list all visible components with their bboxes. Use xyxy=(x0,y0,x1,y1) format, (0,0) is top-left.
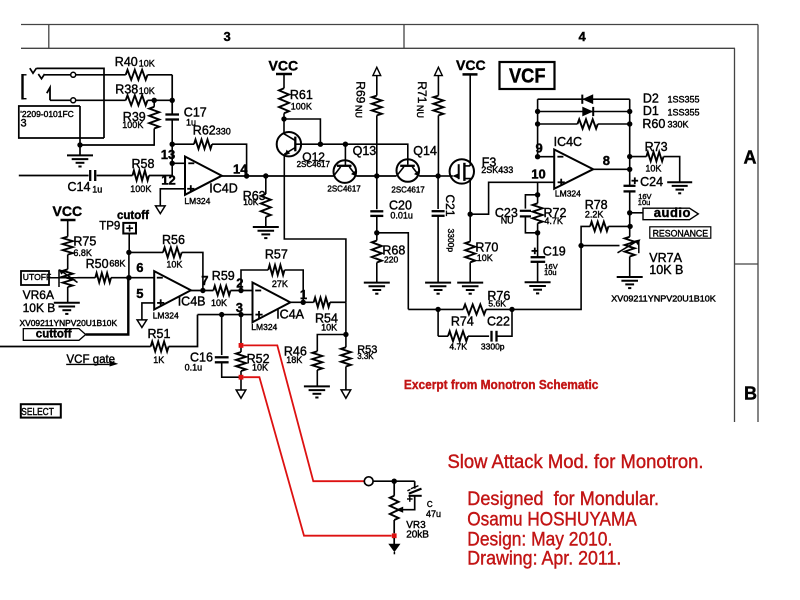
wire R39 to ground rail xyxy=(153,100,155,146)
svg-text:9: 9 xyxy=(536,140,543,155)
sheet border column tick left xyxy=(48,25,50,49)
wire C23 branch bottom xyxy=(525,216,537,232)
IC4A plus sign xyxy=(255,311,262,318)
label IC4A LM324 xyxy=(251,322,277,332)
label jack pin 3 xyxy=(21,117,27,129)
wire switch2 to contact xyxy=(45,74,71,76)
label C16 xyxy=(185,351,213,373)
IC4D plus sign xyxy=(187,185,194,192)
label C 47u xyxy=(426,500,441,519)
wire pin10 column xyxy=(537,182,539,195)
node pin1 junction xyxy=(301,300,306,305)
wire C20 to R68 xyxy=(376,216,378,233)
svg-text:3: 3 xyxy=(21,117,27,129)
sheet border inner top line xyxy=(21,47,735,49)
label R38 xyxy=(115,83,155,97)
wire C17 node to R62 xyxy=(172,143,194,145)
diode D2 xyxy=(582,94,593,104)
ground VR6A xyxy=(54,303,80,314)
node R69 junction xyxy=(374,173,379,178)
svg-text:D1: D1 xyxy=(643,104,659,118)
wire C24 to audio node xyxy=(629,191,631,212)
wire R74 branch bottom left xyxy=(438,335,448,337)
wire R57 left xyxy=(241,270,268,291)
node rail right D1 xyxy=(627,109,632,114)
node C17-R62 junction xyxy=(170,142,175,147)
label IC4C xyxy=(554,135,582,149)
wire VCF gate line xyxy=(0,346,151,348)
node rail R60 junction xyxy=(535,121,540,126)
svg-text:27K: 27K xyxy=(272,279,288,289)
svg-text:R50: R50 xyxy=(86,257,109,271)
wire R58 to IC4D node xyxy=(149,175,172,177)
resistor R61 xyxy=(279,88,289,113)
svg-text:RESONANCE: RESONANCE xyxy=(653,228,709,239)
label R52 xyxy=(247,352,270,373)
svg-text:'2209-0101FC: '2209-0101FC xyxy=(20,110,74,119)
label IC4C LM324 xyxy=(555,189,581,199)
svg-text:4: 4 xyxy=(579,29,587,44)
resistor R71 xyxy=(433,96,443,116)
node output rail top xyxy=(627,167,632,172)
pin number 13 xyxy=(161,147,175,162)
wire R73 left xyxy=(630,156,647,158)
wire D2 branch xyxy=(538,98,630,100)
svg-text:47u: 47u xyxy=(426,509,441,519)
F3 channel bar xyxy=(463,163,465,181)
label IC4B LM324 xyxy=(153,311,179,321)
wire C14 to R58 xyxy=(97,175,133,177)
wire pin12 input xyxy=(160,189,185,206)
pin number 14 xyxy=(233,161,248,176)
resistor R68 xyxy=(372,241,382,263)
resistor R76 xyxy=(463,304,486,314)
red line design xyxy=(467,529,612,550)
wire pin13 input xyxy=(172,162,185,164)
wire C17 to R62 node xyxy=(171,120,173,145)
red line designed xyxy=(467,489,659,510)
wire R74 to C22 xyxy=(468,335,489,337)
wire R70 top xyxy=(469,214,471,241)
svg-text:R60: R60 xyxy=(642,117,665,131)
wire bus left xyxy=(408,308,463,310)
svg-text:R58: R58 xyxy=(132,157,155,171)
label R71 rotated xyxy=(415,81,429,103)
wire R57 right xyxy=(285,270,304,302)
label R74 xyxy=(449,315,473,352)
svg-text:R75: R75 xyxy=(73,235,96,249)
svg-text:Designed for Mondular.: Designed for Mondular. xyxy=(467,489,659,510)
grid label 3 xyxy=(224,29,231,44)
wire R70 to ground xyxy=(469,262,471,282)
wire R59 to pin2 xyxy=(231,290,253,292)
gnd arrow R53 xyxy=(341,390,351,398)
wire R74 branch left xyxy=(437,309,439,336)
wire R71 lower xyxy=(437,115,439,176)
wire pin9 rail up xyxy=(537,99,539,157)
wire R52 bottom xyxy=(240,371,242,390)
svg-text:2SC4617: 2SC4617 xyxy=(327,184,361,193)
pin number 10 xyxy=(531,166,545,181)
node pin6 junction xyxy=(126,275,131,280)
wire C20 top xyxy=(376,176,378,209)
wire Q13 base xyxy=(344,144,346,165)
svg-text:NU: NU xyxy=(415,105,425,118)
jack box outline xyxy=(19,106,104,138)
svg-text:10K: 10K xyxy=(243,197,258,207)
ground R63 xyxy=(253,227,279,238)
wire IC4C output xyxy=(593,168,630,170)
gnd arrow IC4D pin12 xyxy=(156,206,166,214)
svg-text:2.2K: 2.2K xyxy=(585,210,604,220)
wire C22 branch right xyxy=(497,309,513,336)
wire IC4A out xyxy=(290,301,313,303)
IC4C plus sign xyxy=(558,179,565,186)
label R62 xyxy=(193,124,231,138)
resistor R75 xyxy=(63,237,73,255)
audio flag text xyxy=(654,205,691,220)
svg-text:Excerpt from Monotron Schemati: Excerpt from Monotron Schematic xyxy=(404,377,599,392)
wire C20 node to lower bus xyxy=(377,233,409,310)
pin number 12 xyxy=(161,173,175,188)
svg-text:8: 8 xyxy=(603,153,610,168)
label D2 xyxy=(643,91,700,105)
potentiometer VR3 xyxy=(390,481,399,520)
svg-text:NU: NU xyxy=(353,105,363,118)
Q14 collector diag xyxy=(397,167,404,176)
svg-text:LM324: LM324 xyxy=(555,189,581,199)
resistor R51 xyxy=(151,342,169,352)
label R71 NU xyxy=(415,105,425,118)
svg-text:C14: C14 xyxy=(68,180,91,194)
wire wiper to R50 xyxy=(78,277,96,279)
resistor R50 xyxy=(95,273,111,282)
op-amp IC4A xyxy=(253,283,291,323)
svg-text:2SC4617: 2SC4617 xyxy=(297,160,331,169)
wire VR7A to ground xyxy=(629,257,631,278)
node R74 right junction xyxy=(509,307,514,312)
ground R46 xyxy=(304,386,330,397)
capacitor C21 xyxy=(432,211,445,216)
svg-text:audio: audio xyxy=(654,205,691,220)
svg-text:330: 330 xyxy=(216,126,231,136)
label C24 xyxy=(638,175,663,207)
svg-text:R62: R62 xyxy=(193,124,216,138)
node R38-R39 junction xyxy=(152,98,157,103)
op-amp IC4C xyxy=(554,150,593,189)
IC4D minus sign xyxy=(188,162,194,164)
ground R68 xyxy=(364,283,390,294)
transistor Q12 circle xyxy=(277,132,301,156)
wire rail to C24 xyxy=(629,169,631,185)
capacitor C23 xyxy=(520,211,531,217)
label R69 rotated xyxy=(353,81,367,103)
label R51 xyxy=(148,327,171,365)
label R72 xyxy=(544,206,567,226)
resistor R63 xyxy=(261,194,271,217)
svg-text:C22: C22 xyxy=(487,315,510,329)
node R78 junction xyxy=(627,224,632,229)
label VR7A xyxy=(649,251,683,277)
svg-text:SELECT: SELECT xyxy=(21,407,54,418)
wire TP9 down xyxy=(128,234,130,253)
transistor Q13 circle xyxy=(334,160,357,183)
audio flag outline xyxy=(643,208,698,220)
wire emitter column down xyxy=(345,302,347,347)
red node R52 top tap xyxy=(239,343,244,348)
resistor R38 xyxy=(126,95,148,105)
capacitor C 47u xyxy=(407,486,422,502)
wire R56 right down xyxy=(182,252,203,290)
IC4B minus sign xyxy=(157,277,163,279)
svg-text:1K: 1K xyxy=(153,355,164,365)
wire R71 upper xyxy=(437,76,439,96)
label jack partnumber xyxy=(20,110,74,119)
resistor R78 xyxy=(590,222,608,231)
svg-text:Slow Attack Mod. for Monotron.: Slow Attack Mod. for Monotron. xyxy=(448,452,704,473)
F3 gate bar xyxy=(458,164,460,179)
node R52 top junction xyxy=(238,312,243,317)
solid arrow ground VR3 xyxy=(388,538,400,554)
svg-text:Drawing: Apr. 2011.: Drawing: Apr. 2011. xyxy=(467,548,621,569)
svg-text:10K: 10K xyxy=(139,86,155,96)
wire VR6A to ground xyxy=(67,287,69,303)
label R73 xyxy=(645,140,668,174)
wire column R40 to C17 xyxy=(171,75,173,115)
wire audio-in left xyxy=(19,175,89,177)
svg-text:1SS355: 1SS355 xyxy=(668,107,700,117)
wire cap C branch xyxy=(414,481,416,488)
node R74 left junction xyxy=(435,307,440,312)
wire C21 to ground xyxy=(437,216,439,283)
label VCF gate xyxy=(66,354,118,367)
label R46 xyxy=(284,345,307,366)
svg-text:R71: R71 xyxy=(415,81,429,103)
CUTOFF box xyxy=(21,271,51,285)
node rail D1 junction xyxy=(535,109,540,114)
wire output to Q13 xyxy=(266,175,334,177)
RESONANCE box xyxy=(650,227,711,238)
sheet border outer top line xyxy=(21,24,758,26)
svg-text:68K: 68K xyxy=(109,259,125,269)
capacitor C19 xyxy=(531,257,546,262)
svg-text:R69: R69 xyxy=(353,81,367,103)
label Q14 xyxy=(391,144,437,195)
sheet border inner right line xyxy=(734,48,736,422)
wire jack common down to ground rail xyxy=(79,106,81,145)
red note excerpt xyxy=(404,377,599,392)
wire R73 to ground xyxy=(664,157,680,183)
svg-text:VCC: VCC xyxy=(53,203,83,219)
red node R52 bottom tap xyxy=(239,375,244,380)
node R63 junction xyxy=(263,173,268,178)
wire pin6 input xyxy=(129,277,154,279)
wire R63 to ground xyxy=(265,217,267,227)
wire R62 to output xyxy=(212,144,247,176)
label R61 xyxy=(290,88,313,112)
sheet border outer right line xyxy=(757,25,759,423)
IC4B plus sign xyxy=(157,299,164,306)
wire R61 to node xyxy=(283,113,285,119)
resistor R53 xyxy=(341,347,351,366)
resistor R74 xyxy=(448,331,468,341)
node rail right R60 xyxy=(627,121,632,126)
wire IC4B out xyxy=(191,290,214,292)
svg-text:LM324: LM324 xyxy=(153,311,179,321)
F3 gate arrow xyxy=(452,174,458,179)
potentiometer VR7A xyxy=(625,237,635,257)
wire contact to R40 xyxy=(76,74,126,76)
wire R69 lower xyxy=(376,115,378,176)
wire R63 top xyxy=(265,176,267,194)
label Q13 xyxy=(327,144,376,194)
svg-text:5.6K: 5.6K xyxy=(488,299,506,309)
wire R60 branch left xyxy=(538,123,578,125)
svg-text:cuttoff: cuttoff xyxy=(36,329,72,341)
label R68 xyxy=(382,244,405,265)
wire R51 to pin3 xyxy=(169,315,198,347)
svg-text:10K: 10K xyxy=(252,363,268,373)
svg-text:R57: R57 xyxy=(265,248,288,262)
svg-text:10K: 10K xyxy=(211,298,227,308)
node base link junction xyxy=(318,142,323,147)
svg-text:R61: R61 xyxy=(290,88,313,102)
svg-text:R51: R51 xyxy=(148,327,171,341)
svg-text:10u: 10u xyxy=(638,198,651,207)
wire C21 top xyxy=(437,176,439,209)
node pin9 junction xyxy=(535,154,540,159)
node R46 branch junction xyxy=(343,332,348,337)
label D1 xyxy=(643,104,700,118)
pin number 9 xyxy=(536,140,543,155)
wire pin5 input xyxy=(142,303,154,320)
node Q13 base junction xyxy=(343,142,348,147)
resistor R40 xyxy=(126,70,148,80)
wire R72 stub bottom xyxy=(537,223,539,233)
svg-text:VCC: VCC xyxy=(269,58,299,74)
wire R46 branch xyxy=(317,335,346,352)
ground R73 xyxy=(667,182,692,193)
svg-text:3.3K: 3.3K xyxy=(357,352,374,361)
svg-text:XV09211YNPV20U1B10K: XV09211YNPV20U1B10K xyxy=(20,319,118,328)
resistor R59 xyxy=(213,286,230,295)
wire to audio flag xyxy=(630,212,643,214)
node F3 source junction xyxy=(468,212,473,217)
wire cap to wiper xyxy=(403,496,415,510)
svg-text:TP9: TP9 xyxy=(99,220,120,232)
wire pin6 column xyxy=(128,252,130,277)
svg-text:Q13: Q13 xyxy=(353,144,377,158)
capacitor C24 xyxy=(624,186,636,192)
label C23 xyxy=(495,206,518,226)
node C23 top junction xyxy=(535,192,540,197)
RESONANCE text xyxy=(653,228,709,239)
label F3 xyxy=(481,155,513,175)
svg-text:3300p: 3300p xyxy=(481,342,505,352)
svg-text:LM324: LM324 xyxy=(184,196,210,206)
label Q12 xyxy=(297,150,331,169)
wire switch1 to box right xyxy=(36,68,104,138)
Q12 collector xyxy=(284,119,295,141)
TP9 box xyxy=(123,223,136,234)
wire C19 to ground xyxy=(537,262,539,283)
svg-text:R59: R59 xyxy=(212,269,235,283)
wire pin9 input xyxy=(538,156,555,158)
resistor R58 xyxy=(133,171,150,181)
wire C16 bottom xyxy=(222,362,241,377)
svg-text:5: 5 xyxy=(136,286,143,301)
label C20 xyxy=(389,199,413,221)
arrow R69 top xyxy=(373,67,381,75)
svg-text:1u: 1u xyxy=(92,184,102,194)
label VR6 partnumber xyxy=(20,319,118,328)
resistor R69 xyxy=(372,96,382,116)
label R39 xyxy=(122,110,145,130)
red wire upper xyxy=(243,345,364,481)
svg-text:10K: 10K xyxy=(645,163,661,173)
resistor R39 xyxy=(149,107,159,129)
label cutoff bold xyxy=(117,210,149,222)
red line drawing xyxy=(467,548,621,569)
label R63 xyxy=(243,189,266,207)
wire R78 left down xyxy=(581,226,590,245)
label R54 xyxy=(315,312,338,333)
svg-text:0.01u: 0.01u xyxy=(390,211,413,221)
label VR6A xyxy=(23,288,56,315)
wire R38 to column xyxy=(148,99,173,101)
wire rail audio to pot xyxy=(629,213,631,237)
label R40 xyxy=(115,55,155,69)
wire R75 to VR6A xyxy=(67,255,69,270)
jack switch wiper 2 xyxy=(38,74,44,79)
resistor R52 xyxy=(236,352,246,371)
wire D1 branch xyxy=(538,111,630,113)
svg-text:B: B xyxy=(744,383,757,403)
capacitor C14 xyxy=(90,170,95,181)
label R57 xyxy=(265,248,288,290)
node C19 top junction xyxy=(535,230,540,235)
ground C21 xyxy=(425,283,451,294)
wire R60 branch right xyxy=(598,123,630,125)
svg-text:10K: 10K xyxy=(166,260,182,270)
svg-text:100K: 100K xyxy=(130,184,151,194)
wire R72 stub top xyxy=(537,195,539,204)
label R50 xyxy=(86,257,126,271)
grid label 4 xyxy=(579,29,587,44)
capacitor C16 xyxy=(215,357,229,362)
Q13 emitter diag xyxy=(349,167,356,176)
svg-text:220: 220 xyxy=(384,255,398,265)
mod input circle xyxy=(364,477,373,486)
resistor R54 xyxy=(314,298,330,307)
VR6A wiper arrow xyxy=(59,269,78,287)
label R60 xyxy=(642,117,688,131)
VCC symbol F3 xyxy=(456,57,486,74)
sheet border column tick mid xyxy=(403,25,405,49)
VCC symbol R61 xyxy=(269,58,299,89)
grid label A xyxy=(744,147,757,167)
label C19 xyxy=(543,244,566,277)
C19 plus sign xyxy=(532,248,539,255)
capacitor C17 xyxy=(165,115,179,120)
wire R61 node to base link xyxy=(284,119,320,144)
svg-text:Q14: Q14 xyxy=(413,144,437,158)
wire VCC to R75 xyxy=(67,220,69,237)
wire Q12 base xyxy=(295,143,345,145)
wire C23 branch top xyxy=(525,195,537,209)
node pin2 junction xyxy=(238,288,243,293)
wire R53 to arrow xyxy=(345,367,347,390)
